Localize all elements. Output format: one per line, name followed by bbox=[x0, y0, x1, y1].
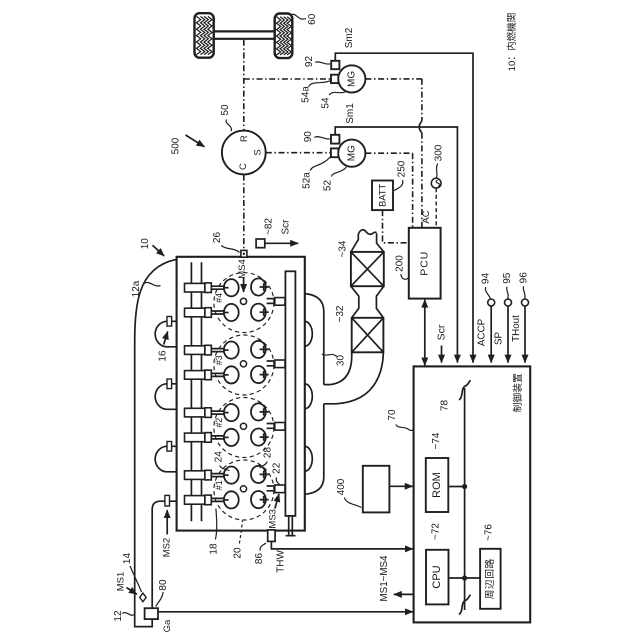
svg-text:#3: #3 bbox=[214, 355, 224, 365]
pipe between converters bbox=[351, 286, 384, 318]
svg-text:94: 94 bbox=[481, 273, 492, 285]
label Scr at sensor bbox=[280, 219, 291, 235]
label THW bbox=[275, 550, 286, 573]
svg-text:22: 22 bbox=[272, 462, 283, 474]
MG54 axis wire bbox=[365, 79, 422, 228]
svg-text:200: 200 bbox=[394, 255, 405, 272]
driveline axis wire bbox=[244, 40, 331, 250]
label AC bbox=[421, 210, 432, 223]
shaft square 52a bbox=[331, 148, 339, 157]
label 28 bbox=[260, 447, 274, 468]
label 12a bbox=[131, 280, 160, 297]
spark plug cylinder 3 bbox=[240, 361, 246, 367]
shaft square 54a bbox=[331, 75, 339, 83]
intake runner bumps 16 bbox=[155, 317, 176, 347]
control unit box 70 bbox=[414, 366, 531, 622]
crank sensor 82 bbox=[256, 239, 265, 248]
svg-text:制御装置: 制御装置 bbox=[511, 373, 524, 412]
label 72 bbox=[431, 523, 442, 540]
label Ga bbox=[162, 619, 173, 632]
planetary gear unit 50 bbox=[222, 131, 266, 175]
svg-text:30: 30 bbox=[335, 355, 346, 367]
intake valves 24 cylinder 4 bbox=[224, 279, 239, 296]
exhaust stub below block bbox=[286, 516, 296, 536]
exhaust manifold outer pipe 30 bbox=[305, 294, 324, 495]
svg-text:52a: 52a bbox=[302, 172, 313, 189]
cylinder 1 dashed bore 20 bbox=[214, 460, 274, 520]
svg-text:52: 52 bbox=[323, 180, 334, 192]
label 70 bbox=[387, 409, 414, 430]
svg-text:R: R bbox=[239, 135, 250, 142]
svg-text:周辺回路: 周辺回路 bbox=[483, 558, 496, 599]
resolver square 92 bbox=[331, 61, 339, 69]
svg-text:ACCP: ACCP bbox=[476, 318, 487, 346]
engine block 10 bbox=[177, 257, 305, 531]
label 74 bbox=[431, 432, 442, 449]
spark plug cylinder 1 bbox=[240, 486, 246, 492]
svg-text:300: 300 bbox=[433, 144, 444, 161]
terminal 95 signal SP bbox=[493, 272, 513, 362]
svg-text:#1: #1 bbox=[214, 480, 224, 490]
exhaust port stub cylinder 4 bbox=[267, 298, 285, 306]
svg-text:~82: ~82 bbox=[263, 218, 274, 235]
svg-text:~72: ~72 bbox=[431, 523, 442, 540]
label 24 bbox=[213, 451, 229, 471]
svg-text:MS1~MS4: MS1~MS4 bbox=[379, 555, 390, 602]
exhaust valves 28 cylinder 2 bbox=[251, 403, 269, 420]
svg-text:92: 92 bbox=[304, 56, 315, 68]
label 92 bbox=[304, 56, 330, 68]
svg-text:18: 18 bbox=[208, 543, 219, 555]
label Sm2 bbox=[344, 27, 355, 48]
svg-text:ROM: ROM bbox=[431, 472, 443, 498]
intake valves 24 cylinder 2 bbox=[224, 404, 239, 421]
svg-text:24: 24 bbox=[213, 451, 224, 463]
svg-text:26: 26 bbox=[212, 232, 223, 244]
label 14 bbox=[122, 553, 142, 592]
label 54 bbox=[321, 92, 346, 109]
ROM box 74 bbox=[426, 458, 449, 512]
cylinder 2 dashed bore 20 bbox=[214, 398, 274, 458]
power control unit PCU 200 bbox=[409, 228, 441, 299]
motor-generator MG 52 bbox=[338, 140, 365, 167]
label 52 bbox=[323, 167, 347, 191]
label 76 bbox=[484, 524, 495, 541]
sensor MS2 bbox=[165, 495, 170, 506]
wire THW signal bbox=[271, 541, 413, 549]
coolant sensor 86 bbox=[268, 530, 275, 542]
svg-text:12a: 12a bbox=[131, 280, 142, 297]
spark plug cylinder 2 bbox=[240, 423, 246, 429]
cylinder 3 dashed bore 20 bbox=[214, 335, 274, 395]
label seigyo souchi bbox=[511, 373, 524, 412]
svg-text:PCU: PCU bbox=[419, 251, 431, 276]
label 54a bbox=[300, 81, 330, 103]
terminal 96 signal THout bbox=[511, 272, 529, 363]
svg-text:50: 50 bbox=[220, 104, 231, 116]
input device 400 bbox=[363, 466, 390, 513]
label 300 bbox=[433, 144, 444, 178]
label 12 bbox=[113, 610, 134, 622]
exhaust valves 28 cylinder 1 bbox=[251, 466, 269, 483]
svg-text:SP: SP bbox=[493, 332, 504, 346]
terminal 94 signal ACCP bbox=[476, 273, 494, 363]
catalytic converter 34 bbox=[351, 252, 384, 286]
label 34 bbox=[338, 240, 349, 257]
label MS1-MS4 arrow bbox=[379, 555, 414, 602]
spark plug cylinder 4 bbox=[240, 298, 246, 304]
svg-text:BATT: BATT bbox=[377, 183, 387, 206]
label 32 bbox=[335, 305, 346, 322]
svg-text:MS1: MS1 bbox=[115, 572, 126, 592]
bus line 78 bbox=[459, 380, 471, 614]
wire Ga signal bbox=[158, 611, 413, 613]
svg-text:THout: THout bbox=[511, 315, 522, 342]
svg-text:CPU: CPU bbox=[431, 565, 443, 588]
wire Sm1 signal bbox=[335, 127, 457, 363]
label 250 bbox=[394, 160, 408, 191]
svg-text:500: 500 bbox=[171, 137, 182, 154]
wire Sm2 signal bbox=[335, 53, 473, 362]
label 60 bbox=[292, 13, 319, 25]
label 10 arrow bbox=[140, 238, 164, 256]
svg-text:10：内燃機関: 10：内燃機関 bbox=[506, 13, 518, 72]
svg-text:Scr: Scr bbox=[280, 219, 291, 235]
label MS1 arrow bbox=[115, 572, 136, 595]
sensor MS1 diamond 14 bbox=[140, 593, 146, 602]
svg-text:Sm1: Sm1 bbox=[345, 103, 356, 124]
cylinder number #1 bbox=[214, 480, 224, 490]
svg-text:20: 20 bbox=[232, 547, 243, 559]
svg-text:78: 78 bbox=[439, 400, 450, 412]
axle shaft bbox=[214, 31, 275, 38]
svg-text:70: 70 bbox=[387, 409, 398, 421]
svg-text:Sm2: Sm2 bbox=[344, 27, 355, 48]
label 82 bbox=[263, 218, 274, 235]
svg-text:Ga: Ga bbox=[162, 619, 173, 632]
wheel right tire bbox=[275, 14, 293, 59]
svg-text:MS3: MS3 bbox=[268, 509, 279, 529]
svg-text:~76: ~76 bbox=[484, 524, 495, 541]
catalytic converter 32 bbox=[352, 318, 384, 353]
label 50 bbox=[220, 104, 231, 131]
svg-text:AC: AC bbox=[421, 210, 432, 223]
svg-text:54a: 54a bbox=[300, 86, 311, 103]
wire PCU control bidirectional bbox=[424, 300, 426, 366]
svg-text:80: 80 bbox=[158, 579, 169, 591]
crank coupling square 26 bbox=[241, 250, 247, 257]
fuel rail bbox=[191, 262, 201, 521]
svg-text:C: C bbox=[238, 163, 249, 170]
label 200 bbox=[394, 255, 408, 280]
svg-text:60: 60 bbox=[307, 13, 318, 25]
svg-text:MS2: MS2 bbox=[161, 538, 172, 558]
wheel left tire bbox=[195, 13, 214, 58]
label 78 bbox=[439, 400, 450, 412]
wire Scr to control bbox=[436, 324, 448, 362]
cylinder number #4 bbox=[214, 293, 224, 303]
svg-text:14: 14 bbox=[122, 553, 133, 565]
svg-text:95: 95 bbox=[502, 272, 513, 284]
wire Scr arrow bbox=[265, 242, 298, 244]
label MS4 arrow bbox=[237, 259, 248, 292]
wire 400 to control bbox=[389, 485, 412, 487]
exhaust port stub cylinder 3 bbox=[267, 360, 285, 368]
label Sm1 bbox=[345, 103, 356, 124]
svg-text:90: 90 bbox=[303, 131, 314, 143]
label 16 arrow bbox=[157, 332, 168, 362]
battery wire bbox=[383, 210, 409, 243]
CPU box 72 bbox=[426, 550, 449, 605]
bus junction CPU peripheral bbox=[449, 575, 481, 580]
svg-text:MS4: MS4 bbox=[237, 259, 248, 279]
svg-text:#2: #2 bbox=[214, 418, 224, 428]
label 400 bbox=[336, 478, 361, 507]
svg-text:#4: #4 bbox=[214, 293, 224, 303]
label 80 bbox=[156, 579, 169, 606]
air flow meter 80 bbox=[145, 608, 158, 619]
motor-generator MG 54 bbox=[338, 65, 365, 92]
svg-text:400: 400 bbox=[336, 478, 347, 495]
exhaust valves 28 cylinder 4 bbox=[251, 278, 269, 295]
svg-text:~74: ~74 bbox=[431, 432, 442, 449]
ac source 300 bbox=[431, 178, 441, 188]
peripheral circuit box 76 bbox=[480, 549, 501, 609]
svg-text:16: 16 bbox=[157, 350, 168, 362]
svg-text:MG: MG bbox=[346, 145, 357, 161]
cylinder number #2 bbox=[214, 418, 224, 428]
exhaust port stub cylinder 2 bbox=[267, 423, 285, 431]
ac wire bbox=[435, 188, 437, 228]
exhaust branch pipe to converter bbox=[324, 353, 384, 404]
label 20 bbox=[232, 521, 243, 559]
fuel injectors 18 bbox=[185, 283, 225, 293]
svg-text:Scr: Scr bbox=[436, 324, 448, 340]
exhaust manifold bar bbox=[285, 271, 295, 516]
svg-text:~32: ~32 bbox=[335, 305, 346, 322]
label MS3 arrow bbox=[268, 494, 280, 529]
label 30 bbox=[322, 354, 347, 366]
svg-text:10: 10 bbox=[140, 238, 151, 250]
svg-text:~34: ~34 bbox=[338, 240, 349, 257]
bus junction ROM bbox=[448, 484, 467, 489]
tail pipe with break bbox=[351, 230, 384, 252]
label 86 bbox=[254, 543, 266, 564]
svg-text:54: 54 bbox=[321, 97, 332, 109]
label 90 bbox=[303, 131, 330, 143]
cylinder 4 dashed bore 20 bbox=[214, 273, 274, 333]
exhaust port stub cylinder 1 bbox=[267, 485, 285, 493]
intake valves 24 cylinder 1 bbox=[224, 467, 239, 484]
svg-text:28: 28 bbox=[262, 447, 273, 459]
svg-text:S: S bbox=[253, 149, 264, 155]
svg-text:96: 96 bbox=[518, 272, 529, 284]
intake valves 24 cylinder 3 bbox=[224, 342, 239, 359]
label 500 arrow bbox=[171, 135, 205, 154]
cylinder number #3 bbox=[214, 355, 224, 365]
svg-text:THW: THW bbox=[275, 550, 286, 573]
intake pipe 12 outer curve 12a bbox=[135, 259, 177, 626]
MG52 axis wire bbox=[266, 153, 413, 228]
resolver square 90 bbox=[331, 135, 339, 144]
exhaust runner bumps bbox=[305, 321, 313, 346]
figure caption 10 nainenkikan bbox=[506, 13, 518, 72]
exhaust valves 28 cylinder 3 bbox=[251, 341, 269, 358]
label MS2 arrow bbox=[161, 510, 172, 557]
svg-text:MG: MG bbox=[346, 71, 357, 87]
svg-text:86: 86 bbox=[254, 553, 265, 565]
battery BATT 250 bbox=[372, 181, 393, 211]
label 18 bbox=[208, 509, 219, 555]
svg-text:250: 250 bbox=[397, 160, 408, 177]
label 22 bbox=[272, 462, 283, 485]
label 52a bbox=[302, 157, 331, 189]
label 26 bbox=[212, 232, 240, 253]
svg-text:12: 12 bbox=[113, 610, 124, 622]
